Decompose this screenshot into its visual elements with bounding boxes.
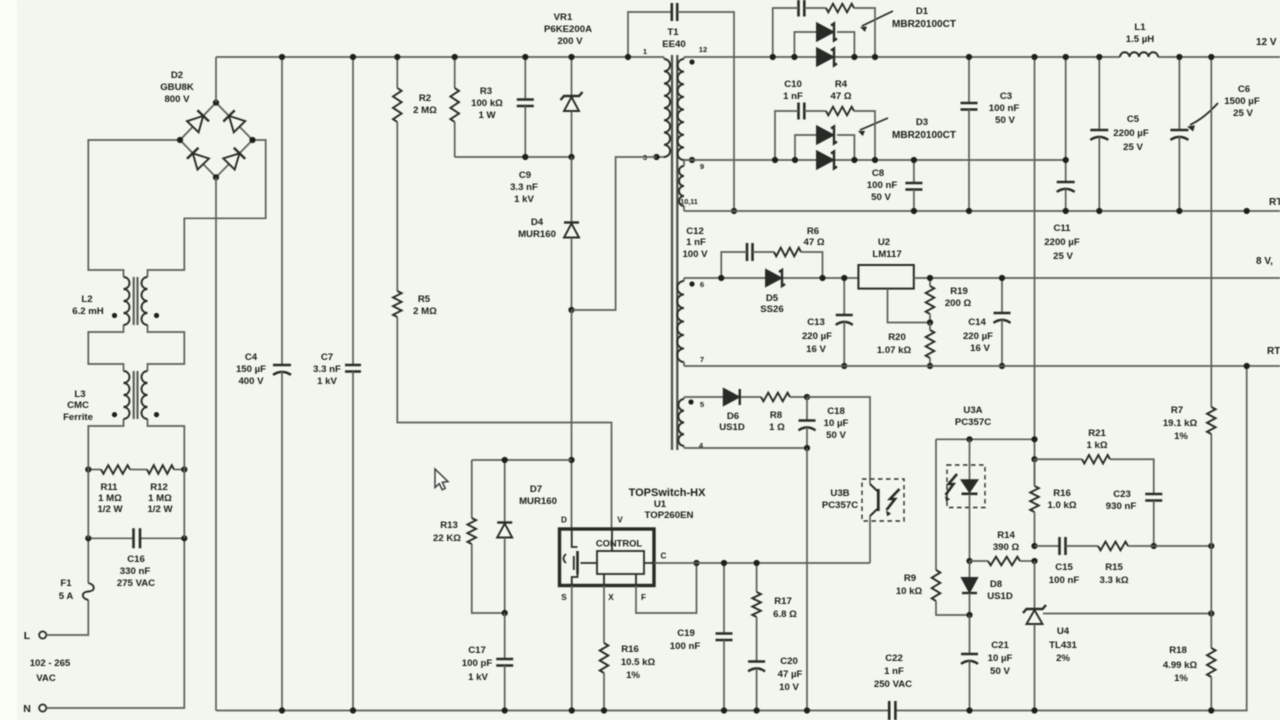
svg-text:R16: R16 (1053, 488, 1071, 499)
capacitor C13 220 uF 16 V (802, 278, 853, 366)
junction spine 12V (1031, 54, 1037, 60)
svg-text:SS26: SS26 (760, 304, 783, 315)
wire clamp row (455, 156, 572, 158)
svg-text:D: D (561, 516, 567, 525)
capacitor C7 3.3 nF 1 kV (313, 57, 361, 711)
junction D1 snubber right (872, 54, 878, 60)
svg-text:3.3 nF: 3.3 nF (313, 364, 341, 375)
junction C7 bottom (350, 707, 356, 713)
junction C9 top (522, 54, 528, 60)
wire TL431 ref row (1043, 613, 1211, 615)
svg-text:R19: R19 (950, 286, 968, 297)
svg-text:390 Ω: 390 Ω (993, 542, 1020, 553)
svg-text:US1D: US1D (719, 422, 745, 433)
wire row pin9 (684, 159, 1066, 161)
svg-text:C4: C4 (245, 352, 258, 363)
svg-text:1 Ω: 1 Ω (769, 422, 785, 433)
svg-text:1/2 W: 1/2 W (97, 504, 123, 515)
svg-text:L: L (24, 630, 31, 642)
junction C7 top (350, 54, 356, 60)
wire secondary bottom rail (896, 366, 1247, 711)
mouse cursor (435, 469, 448, 490)
transformer secondary winding pin9 pin10 (679, 160, 684, 211)
svg-text:400 V: 400 V (238, 376, 264, 387)
capacitor C18 10 uF 50 V (799, 397, 849, 448)
svg-text:GBU8K: GBU8K (160, 82, 194, 93)
wire bias return (806, 448, 808, 711)
svg-text:4.99 kΩ: 4.99 kΩ (1163, 660, 1198, 671)
wire right rail C16 to R12 (183, 470, 185, 539)
capacitor C20 47 uF 10 V (748, 656, 802, 711)
svg-text:U1: U1 (654, 499, 667, 510)
diode D5 SS26 (760, 270, 785, 315)
svg-text:12 V: 12 V (1256, 37, 1277, 48)
svg-text:1 nF: 1 nF (686, 237, 706, 248)
junction Y cap primary (625, 54, 631, 60)
transformer secondary winding pin6 pin7 8V (677, 278, 694, 366)
svg-text:CONTROL: CONTROL (596, 538, 643, 549)
svg-text:R13: R13 (440, 520, 458, 531)
resistor R3 100 kOhm 1 W (450, 57, 503, 157)
capacitor C17 100 pF 1 kV (462, 613, 513, 711)
svg-text:7: 7 (700, 355, 704, 364)
junction D3 snubber right (872, 157, 878, 163)
junction R3 top (452, 54, 458, 60)
svg-text:D8: D8 (990, 579, 1003, 590)
junction bridge right (249, 137, 255, 143)
regulator U2 LM117 (858, 237, 930, 323)
svg-text:2200 µF: 2200 µF (1044, 237, 1080, 248)
diode D1 MBR20100CT dual schottky (794, 6, 956, 66)
capacitor C14 220 uF 16 V (963, 278, 1011, 366)
svg-text:100 nF: 100 nF (1049, 575, 1080, 586)
capacitor C21 10 uF 50 V (961, 615, 1012, 711)
svg-text:800 V: 800 V (164, 94, 190, 105)
svg-text:C: C (661, 552, 667, 561)
junction C17 bottom (502, 707, 508, 713)
svg-text:C10: C10 (784, 79, 802, 90)
svg-text:U4: U4 (1057, 626, 1070, 637)
svg-text:1 kΩ: 1 kΩ (1086, 440, 1107, 451)
svg-text:R6: R6 (807, 226, 819, 237)
svg-text:U3A: U3A (963, 405, 982, 416)
svg-text:47 Ω: 47 Ω (830, 91, 851, 102)
svg-text:10 µF: 10 µF (988, 653, 1013, 664)
svg-text:D2: D2 (171, 70, 183, 81)
junction spine C15 row (1031, 543, 1037, 549)
resistor R13 22 kOhm (433, 460, 505, 613)
wire C pin row (654, 562, 870, 564)
svg-text:275 VAC: 275 VAC (117, 578, 155, 589)
diode D8 US1D (962, 561, 1013, 615)
svg-text:50 V: 50 V (826, 430, 846, 441)
zener VR1 P6KE200A 200 V (544, 12, 592, 157)
svg-text:100 nF: 100 nF (867, 180, 898, 191)
resistor R21 1 kOhm (1035, 428, 1154, 494)
junction C11 bottom (1063, 208, 1069, 214)
snubber C12 R6 (682, 226, 824, 278)
resistor R5 2 MOhm (393, 291, 437, 317)
wire fuse to C16 row (87, 538, 89, 583)
diode D3 MBR20100CT dual schottky (795, 117, 956, 169)
svg-text:C8: C8 (872, 168, 885, 179)
capacitor C9 3.3 nF 1 kV (510, 57, 538, 205)
svg-text:D4: D4 (531, 217, 544, 228)
svg-text:220 µF: 220 µF (802, 331, 832, 342)
terminal L (24, 630, 47, 642)
choke L3 CMC Ferrite (63, 371, 159, 423)
resistor R8 1 Ohm (761, 393, 807, 433)
U1 internal mosfet (564, 529, 598, 586)
junction TL431 anode bottom (1031, 707, 1037, 713)
resistor R11 1 MOhm 1/2 W (88, 465, 138, 515)
svg-text:MUR160: MUR160 (518, 229, 556, 240)
junction D7 bottom (502, 610, 508, 616)
transformer T1 EE40 label (662, 27, 685, 50)
svg-text:C18: C18 (827, 406, 845, 417)
junction C18 bottom (804, 445, 810, 451)
junction C13 top (841, 275, 847, 281)
junction R20 bottom (927, 363, 933, 369)
optocoupler U3B PC357C (822, 479, 904, 521)
svg-text:D6: D6 (727, 411, 739, 422)
wire U3B emitter to C row (869, 516, 871, 563)
junction C16 left (85, 535, 91, 541)
junction C20 bottom (754, 707, 760, 713)
svg-text:C11: C11 (1053, 223, 1071, 234)
svg-text:R15: R15 (1105, 562, 1123, 573)
svg-text:102 - 265: 102 - 265 (30, 658, 71, 669)
svg-text:6.2 mH: 6.2 mH (72, 306, 104, 317)
svg-text:C17: C17 (468, 645, 486, 656)
junction S bottom (569, 707, 575, 713)
junction ref R18 (1208, 610, 1214, 616)
resistor R14 390 Ohm (970, 530, 1035, 565)
U1 inner pin stubs (604, 529, 654, 586)
svg-text:D5: D5 (766, 293, 779, 304)
wire primary bottom rail (216, 710, 889, 712)
svg-text:R12: R12 (150, 482, 168, 493)
svg-text:C3: C3 (1000, 91, 1012, 102)
junction bias return bottom (804, 707, 810, 713)
junction D7 top (502, 457, 508, 463)
resistor R19 200 Ohm (926, 278, 972, 323)
svg-text:US1D: US1D (987, 591, 1013, 602)
svg-text:C20: C20 (780, 656, 798, 667)
svg-text:19.1 kΩ: 19.1 kΩ (1163, 418, 1198, 429)
junction spine R21 row (1031, 456, 1037, 462)
svg-text:1.0 kΩ: 1.0 kΩ (1047, 500, 1076, 511)
junction VR1 bottom clamp row (568, 154, 574, 160)
svg-text:10 kΩ: 10 kΩ (896, 586, 923, 597)
svg-text:C12: C12 (686, 226, 704, 237)
svg-text:1%: 1% (1174, 673, 1188, 684)
fuse F1 5 A (59, 578, 94, 602)
junction C13 bottom (841, 363, 847, 369)
junction C12 left (718, 275, 724, 281)
resistor R17 6.8 Ohm (752, 563, 797, 662)
svg-text:C23: C23 (1113, 489, 1131, 500)
junction spine anode row (1031, 436, 1037, 442)
junction drain snubber tap (568, 457, 574, 463)
svg-text:25 V: 25 V (1233, 108, 1253, 119)
junction LED anode (966, 436, 972, 442)
junction C16 right (181, 535, 187, 541)
svg-text:CMC: CMC (67, 400, 89, 411)
junction C6 top (1176, 54, 1182, 60)
svg-text:16 V: 16 V (970, 343, 990, 354)
resistor R16 1.0 kOhm (1030, 459, 1077, 546)
choke L2 6.2 mH (72, 277, 159, 325)
svg-text:R3: R3 (480, 86, 492, 97)
diode D6 US1D (719, 389, 745, 433)
svg-text:C22: C22 (885, 653, 903, 664)
svg-text:C19: C19 (677, 628, 695, 639)
svg-text:220 µF: 220 µF (963, 331, 993, 342)
svg-text:R4: R4 (835, 79, 848, 90)
capacitor C15 100 nF (1035, 537, 1099, 586)
junction C8 bottom (911, 208, 917, 214)
wire R2 to R5 (396, 122, 398, 291)
svg-text:330 nF: 330 nF (120, 566, 151, 577)
wire drain column (571, 310, 573, 529)
junction D3 snubber left (772, 157, 778, 163)
svg-text:R11: R11 (100, 482, 118, 493)
svg-text:10 V: 10 V (779, 682, 799, 693)
wire between chokes right (148, 325, 185, 371)
wire F pin loop (636, 563, 697, 613)
capacitor C19 100 nF (670, 563, 733, 711)
TOPSwitch U1 TOP260EN box (560, 487, 707, 586)
svg-text:C16: C16 (127, 554, 145, 565)
junction VR1 top (568, 54, 574, 60)
svg-text:C21: C21 (991, 640, 1009, 651)
wire bridge minus to bottom rail (215, 177, 217, 710)
junction spine R14 row (1031, 558, 1037, 564)
wire S pin to bottom rail (571, 586, 573, 711)
svg-text:MBR20100CT: MBR20100CT (892, 19, 956, 30)
wire between chokes left (88, 325, 123, 371)
junction C21 bottom (966, 707, 972, 713)
snubber C10 R4 for D3 (775, 79, 875, 160)
svg-text:1 kV: 1 kV (468, 672, 488, 683)
svg-text:TOPSwitch-HX: TOPSwitch-HX (629, 487, 706, 499)
svg-text:D3: D3 (916, 117, 928, 128)
wire 8V output row (914, 277, 1280, 279)
svg-text:47 Ω: 47 Ω (803, 237, 824, 248)
junction C11 row9 (1063, 157, 1069, 163)
diode D7 MUR160 (497, 460, 557, 613)
wire U3A anode row (936, 438, 1035, 440)
wire left rail C16 to R11 (87, 470, 89, 539)
svg-text:RT: RT (1267, 346, 1280, 357)
svg-text:EE40: EE40 (662, 39, 685, 50)
junction LED cathode R14 (966, 558, 972, 564)
transformer bias winding pin5 pin4 (678, 397, 693, 448)
svg-text:TOP260EN: TOP260EN (645, 510, 694, 521)
svg-text:6.8 Ω: 6.8 Ω (773, 609, 797, 620)
svg-text:1/2 W: 1/2 W (147, 504, 173, 515)
svg-text:1 MΩ: 1 MΩ (98, 493, 122, 504)
junction R19 R20 adj (927, 319, 933, 325)
svg-text:LM117: LM117 (872, 249, 901, 260)
junction C14 bottom (999, 363, 1005, 369)
junction D3 branch right (851, 157, 857, 163)
svg-text:2 MΩ: 2 MΩ (413, 105, 437, 116)
svg-text:T1: T1 (667, 27, 679, 38)
resistor R16 10.5 kOhm 1% (X pin) (600, 586, 656, 711)
capacitor C22 1 nF 250 VAC (874, 653, 912, 720)
svg-text:S: S (561, 593, 567, 602)
svg-text:R18: R18 (1169, 645, 1187, 656)
wire L2 top right to bridge (148, 140, 266, 277)
svg-text:10 µF: 10 µF (824, 418, 849, 429)
svg-text:PC357C: PC357C (822, 500, 858, 511)
svg-text:R9: R9 (904, 573, 916, 584)
junction R6 right (819, 275, 825, 281)
capacitor C23 930 nF (1106, 489, 1162, 546)
svg-text:22 KΩ: 22 KΩ (433, 533, 461, 544)
junction C4 top (279, 54, 285, 60)
wire bias to U3B collector (807, 397, 870, 484)
junction R19 top (927, 275, 933, 281)
svg-text:TL431: TL431 (1049, 640, 1077, 651)
junction C3 top (966, 54, 972, 60)
junction C3 bottom (966, 208, 972, 214)
capacitor C5 2200 uF 25 V (1090, 57, 1149, 211)
wire R5 to V pin (397, 317, 611, 529)
capacitor C6 1500 uF 25 V (1170, 57, 1259, 211)
svg-text:200 V: 200 V (557, 36, 583, 47)
svg-text:U3B: U3B (830, 488, 849, 499)
shunt regulator U4 TL431 2% (1023, 561, 1078, 711)
junction R18 bottom (1208, 707, 1214, 713)
wire L2 top left to bridge (88, 140, 180, 277)
junction pin9 (689, 157, 695, 163)
svg-text:F: F (641, 593, 646, 602)
svg-text:50 V: 50 V (990, 666, 1010, 677)
junction R15 R7 row (1208, 543, 1214, 549)
svg-text:Ferrite: Ferrite (63, 412, 93, 423)
svg-text:1%: 1% (626, 670, 640, 681)
junction D1 snubber left (770, 54, 776, 60)
svg-text:PC357C: PC357C (955, 417, 991, 428)
wire 8V diode row (684, 277, 858, 279)
resistor R15 3.3 kOhm (1098, 542, 1211, 586)
resistor R20 1.07 kOhm (877, 323, 934, 367)
svg-text:3.3 nF: 3.3 nF (510, 182, 538, 193)
svg-text:100 pF: 100 pF (462, 658, 493, 669)
transformer core (672, 55, 677, 450)
transformer primary winding pin1 pin3 (657, 57, 671, 157)
svg-text:N: N (23, 703, 31, 715)
svg-text:2 MΩ: 2 MΩ (413, 306, 437, 317)
junction Y cap secondary (731, 208, 737, 214)
resistor R7 19.1 kOhm 1% (1163, 57, 1216, 546)
svg-text:F1: F1 (60, 578, 72, 589)
svg-text:R21: R21 (1088, 428, 1106, 439)
svg-text:L3: L3 (74, 389, 85, 400)
junction C5 bottom (1096, 208, 1102, 214)
wire 8V RTN rail (684, 365, 1280, 367)
wire L to fuse (46, 600, 88, 635)
svg-text:P6KE200A: P6KE200A (544, 24, 592, 35)
svg-text:R5: R5 (418, 294, 431, 305)
junction RTN riser row2 (1244, 363, 1250, 369)
svg-text:250 VAC: 250 VAC (874, 679, 912, 690)
wire bias row (684, 396, 761, 398)
wire right rail up (148, 419, 185, 470)
junction bridge top (213, 100, 219, 106)
junction C8 top (911, 157, 917, 163)
svg-text:50 V: 50 V (995, 115, 1015, 126)
svg-text:47 µF: 47 µF (778, 669, 803, 680)
svg-text:V: V (617, 516, 623, 525)
svg-text:RT: RT (1269, 197, 1280, 208)
svg-text:2200 µF: 2200 µF (1113, 128, 1149, 139)
svg-text:VR1: VR1 (554, 12, 573, 23)
svg-text:25 V: 25 V (1053, 251, 1073, 262)
junction bridge bottom (213, 174, 219, 180)
wire primary top rail (216, 56, 664, 58)
wire RTN rail (684, 210, 1280, 212)
svg-text:1 kV: 1 kV (514, 194, 534, 205)
svg-text:10.5 kΩ: 10.5 kΩ (621, 657, 656, 668)
resistor R9 10 kOhm (896, 439, 970, 615)
svg-text:L2: L2 (81, 294, 92, 305)
svg-text:C9: C9 (519, 170, 531, 181)
svg-text:100 V: 100 V (682, 249, 708, 260)
svg-text:50 V: 50 V (871, 192, 891, 203)
wire bridge plus to top rail (215, 57, 217, 103)
svg-text:X: X (608, 593, 614, 602)
svg-text:R16: R16 (621, 644, 639, 655)
junction R2 top (394, 54, 400, 60)
svg-text:C15: C15 (1055, 562, 1073, 573)
svg-text:D1: D1 (916, 6, 929, 17)
terminal N (23, 703, 46, 715)
junction D3 branch left (792, 157, 798, 163)
transformer secondary winding pin12 pin9 (678, 57, 695, 160)
svg-text:1 W: 1 W (478, 110, 496, 121)
junction C19 top (721, 560, 727, 566)
wire pin4 row (684, 447, 807, 449)
junction C9 bottom (522, 154, 528, 160)
Y capacitor across transformer (628, 3, 734, 211)
svg-text:1500 µF: 1500 µF (1224, 96, 1260, 107)
junction bridge left (177, 137, 183, 143)
label 102-265 VAC (30, 658, 71, 684)
svg-text:2%: 2% (1056, 653, 1070, 664)
svg-text:U2: U2 (878, 237, 890, 248)
junction R7 top (1208, 54, 1214, 60)
svg-text:930 nF: 930 nF (1106, 501, 1137, 512)
svg-text:16 V: 16 V (806, 344, 826, 355)
svg-text:8 V,: 8 V, (1256, 256, 1273, 267)
capacitor C11 2200 uF 25 V (1044, 57, 1080, 262)
junction C11 top (1063, 54, 1069, 60)
svg-text:10,11: 10,11 (680, 197, 698, 206)
capacitor C16 330 nF 275 VAC (88, 528, 184, 589)
junction pin3 (653, 154, 659, 160)
wire feedback spine from 12V rail (1034, 57, 1036, 486)
svg-text:R20: R20 (888, 332, 906, 343)
junction D1 branch right (851, 54, 857, 60)
svg-text:R2: R2 (419, 93, 431, 104)
svg-text:R17: R17 (774, 596, 792, 607)
junction C5 top (1096, 54, 1102, 60)
junction R17 top (754, 560, 760, 566)
